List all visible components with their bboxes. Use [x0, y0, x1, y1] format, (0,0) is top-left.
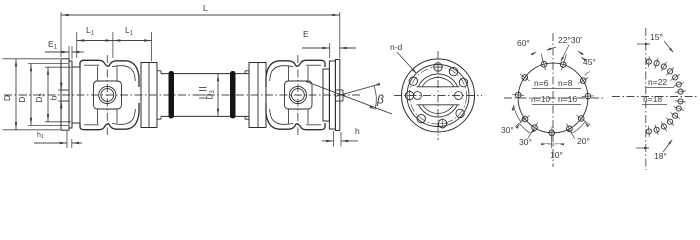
middle diagram horizontal centerline [504, 97, 603, 99]
bolt holes [434, 63, 442, 71]
right bearing cup outer circle [289, 86, 306, 103]
right flange bolt hole [335, 89, 343, 91]
left bearing inner circle [101, 89, 114, 102]
right yoke inner lines top [306, 64, 321, 66]
radial callout lines [564, 54, 566, 61]
right diagram horizontal centerline [612, 96, 698, 98]
left bearing cup outer circle [99, 86, 116, 103]
flange face view horizontal centerline [394, 95, 482, 97]
right yoke tube-ear outer top [266, 61, 296, 87]
left yoke flange-ear outer bottom [80, 123, 109, 130]
left step [157, 70, 161, 72]
beta line upper [335, 84, 380, 97]
dimension D3 [217, 74, 219, 117]
left yoke inner lines top [84, 64, 99, 66]
svg-text:22°30′: 22°30′ [558, 35, 582, 45]
right yoke flange-ear outer top [296, 60, 325, 67]
beta arc [374, 86, 376, 110]
dimension L1 first [77, 40, 113, 42]
svg-text:45°: 45° [583, 57, 596, 67]
yoke slot top line [417, 86, 460, 88]
right yoke flange-ear outer bottom [296, 123, 325, 130]
right weld flange [249, 63, 266, 128]
left joint vertical centerline [106, 55, 108, 135]
left cap stem lines [97, 66, 99, 81]
seal band right [230, 71, 236, 118]
left flange bolt hole [60, 89, 69, 91]
right flange hub [323, 69, 329, 121]
svg-text:60°: 60° [517, 38, 530, 48]
middle diagram bolt holes [585, 93, 591, 99]
beta line lower [306, 82, 392, 115]
left yoke inner lines bottom [84, 124, 99, 126]
dimension h [322, 140, 334, 142]
svg-text:L: L [203, 3, 208, 13]
seal band left [169, 71, 175, 118]
svg-text:D: D [2, 95, 12, 101]
dimension E1 [45, 51, 69, 53]
left yoke tube-ear outer top [109, 61, 139, 87]
yoke slot bottom line [417, 104, 460, 106]
tube [161, 73, 249, 75]
svg-text:n=10: n=10 [531, 94, 550, 104]
dimension D1 [28, 63, 68, 65]
svg-text:h: h [355, 126, 360, 136]
right yoke inner lines bottom [306, 124, 321, 126]
right joint vertical centerline [297, 55, 299, 135]
svg-text:n=6: n=6 [534, 78, 549, 88]
right bearing inner circle [292, 89, 305, 102]
dimension D2 [45, 66, 71, 68]
svg-text:n=18: n=18 [643, 94, 662, 104]
left flange plate [61, 59, 69, 130]
svg-text:n=22: n=22 [648, 77, 667, 87]
right diagram vertical centerline [645, 28, 647, 170]
dimension h1 [34, 142, 67, 144]
svg-text:β: β [376, 93, 384, 107]
left bearing cap outline [94, 81, 122, 109]
dimension L1 second [113, 40, 152, 42]
left flange hub [72, 67, 80, 123]
right yoke tube-ear outer bottom [266, 103, 296, 129]
svg-text:15°: 15° [650, 32, 663, 42]
svg-text:h1: h1 [37, 132, 44, 140]
right cap stem lines [288, 66, 290, 81]
middle diagram circle [518, 63, 588, 133]
right flange plate1 [329, 61, 335, 129]
slot end circle right [455, 92, 463, 100]
flange inner circles (arcs above/below slot) [418, 74, 457, 87]
dimension D [3, 58, 61, 60]
svg-text:b: b [49, 95, 59, 100]
svg-text:20°: 20° [577, 136, 590, 146]
equality marks on tube [199, 87, 207, 89]
svg-text:E: E [303, 29, 309, 39]
dimension L [61, 14, 340, 16]
left weld flange [141, 63, 157, 128]
flange face view vertical centerline [437, 51, 439, 140]
right diagram bolt holes [646, 59, 651, 64]
right flange plate2 [335, 60, 339, 131]
left yoke flange-ear outer top [80, 60, 109, 67]
middle diagram vertical centerline [552, 33, 554, 167]
svg-text:30°: 30° [519, 137, 532, 147]
slot end circle left [414, 92, 422, 100]
svg-text:18°: 18° [654, 151, 667, 161]
svg-text:10°: 10° [550, 150, 563, 160]
bottom angle arcs [514, 105, 521, 122]
svg-text:n-d: n-d [390, 42, 403, 52]
bolt circle [410, 67, 467, 124]
svg-text:30°: 30° [501, 125, 514, 135]
flange rim circle [407, 65, 469, 127]
left yoke tube-ear outer bottom [109, 103, 139, 129]
svg-text:n=16: n=16 [558, 94, 577, 104]
dimension b [58, 89, 61, 91]
wire main shaft centerline [4, 94, 360, 96]
svg-text:n=8: n=8 [558, 78, 573, 88]
left flange inner plate [69, 61, 72, 128]
dimension E [302, 47, 330, 49]
right bearing cap outline [285, 81, 313, 109]
right step [245, 70, 249, 72]
flange outer circle [402, 59, 475, 132]
